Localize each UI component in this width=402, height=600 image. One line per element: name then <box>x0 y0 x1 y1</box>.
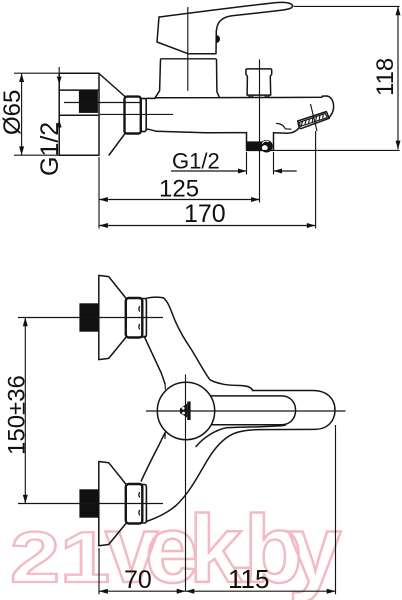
vertical body centerline <box>185 374 187 591</box>
118 dim line <box>397 6 399 149</box>
eccentric pipe outline <box>59 90 98 115</box>
150 arrows <box>23 318 28 327</box>
centerlines, bottom view <box>18 318 346 592</box>
body skirt <box>155 60 220 98</box>
flange cone slants <box>99 74 125 156</box>
bottom dim line <box>99 590 336 592</box>
lower arm inner edge <box>141 433 165 481</box>
G1/2 dim lines <box>171 170 297 172</box>
arrowheads, top view <box>19 6 400 228</box>
150±36 dim line <box>24 318 26 504</box>
wall flange (side) <box>59 73 99 155</box>
aerator outline <box>298 112 330 129</box>
flange wall line <box>58 67 60 155</box>
G1/2 wall arrows <box>57 77 62 85</box>
diverter knob <box>246 69 272 95</box>
svg-text:G1/2: G1/2 <box>36 122 64 176</box>
G1/2 dim arrows <box>238 169 247 174</box>
eccentric black block <box>79 90 98 113</box>
spout inner lip <box>277 123 291 129</box>
svg-text:70: 70 <box>124 566 152 594</box>
Ø65 dim line <box>21 73 23 155</box>
svg-text:21: 21 <box>10 518 110 598</box>
aerator axis stub <box>311 104 318 131</box>
125 dim line <box>99 199 260 201</box>
left ext line (wall) <box>98 157 100 229</box>
Ø65 arrows <box>19 73 24 82</box>
svg-text:170: 170 <box>184 200 226 228</box>
svg-text:G1/2: G1/2 <box>172 149 220 174</box>
handle temperature dot <box>216 35 220 43</box>
body cap under handle <box>161 58 216 60</box>
svg-text:150±36: 150±36 <box>4 375 31 455</box>
svg-text:115: 115 <box>228 564 269 594</box>
inner recess rounded rect <box>200 396 296 425</box>
G1/2 block ext lines <box>247 152 274 175</box>
aerator ext line <box>315 131 317 229</box>
70/115 arrows <box>99 589 108 594</box>
118 arrows <box>396 6 401 15</box>
barrel centerline <box>100 113 173 115</box>
170 dim line <box>99 225 316 227</box>
pipe centerline <box>64 102 140 104</box>
barrel top edge <box>146 96 326 98</box>
upper flange <box>99 275 126 359</box>
ext lines Ø65 <box>14 73 59 155</box>
handle axis centerline <box>187 7 189 91</box>
inner recess lower sweep <box>196 425 285 446</box>
aerator hatched face <box>300 114 328 127</box>
upper arm inner edge <box>144 336 165 383</box>
upper arm outer edge <box>146 297 252 390</box>
upper hex nut <box>126 298 143 338</box>
handle lever (side) <box>159 2 293 31</box>
lever outer <box>146 391 335 522</box>
centerlines, top view <box>64 7 317 203</box>
ext lines bottom <box>98 548 100 594</box>
svg-text:Ø65: Ø65 <box>0 90 26 135</box>
svg-text:118: 118 <box>372 58 399 96</box>
barrel bottom edge <box>146 129 246 133</box>
118 ext lines <box>262 6 400 150</box>
boss circle <box>157 382 214 439</box>
upper eccentric black <box>79 303 98 331</box>
170 arrows <box>99 223 108 228</box>
dimensions, top view <box>14 6 400 228</box>
lower flange <box>99 462 126 546</box>
hex nut (side) <box>125 97 141 134</box>
lower hex nut <box>126 484 143 524</box>
shower nipple sphere <box>260 140 273 153</box>
lever axis centerline <box>146 410 346 412</box>
spout tip <box>327 96 334 118</box>
shower outlet block <box>247 133 274 151</box>
upper connection centerline <box>18 317 163 319</box>
watermark 21vek.by <box>10 496 341 600</box>
dimensions, bottom view <box>25 318 335 595</box>
diverter axis centerline <box>259 59 261 202</box>
logo mark <box>180 402 191 421</box>
lower eccentric black <box>79 489 98 517</box>
125 arrows <box>99 197 108 202</box>
svg-text:125: 125 <box>159 176 199 203</box>
lower connection centerline <box>18 503 163 505</box>
